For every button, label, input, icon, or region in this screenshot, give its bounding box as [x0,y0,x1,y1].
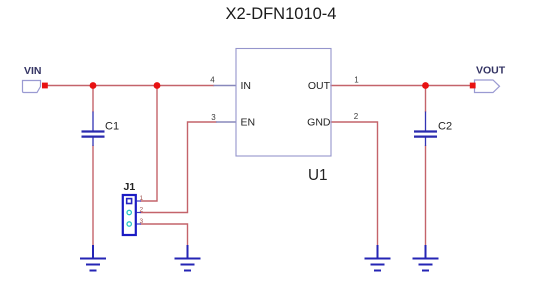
svg-text:C2: C2 [438,121,452,133]
svg-text:C1: C1 [105,121,119,133]
svg-text:3: 3 [211,113,216,122]
svg-text:U1: U1 [308,167,328,184]
svg-text:VOUT: VOUT [476,65,506,77]
svg-text:EN: EN [241,117,256,129]
svg-text:OUT: OUT [308,80,331,92]
svg-text:2: 2 [140,207,144,214]
svg-text:VIN: VIN [24,65,42,77]
svg-text:1: 1 [354,76,359,85]
svg-text:IN: IN [241,80,252,92]
svg-text:2: 2 [354,112,359,121]
svg-text:X2-DFN1010-4: X2-DFN1010-4 [226,5,337,23]
svg-text:J1: J1 [124,181,136,193]
svg-text:4: 4 [210,76,215,85]
svg-text:GND: GND [307,117,331,129]
svg-text:3: 3 [140,218,144,225]
svg-text:1: 1 [140,195,144,202]
